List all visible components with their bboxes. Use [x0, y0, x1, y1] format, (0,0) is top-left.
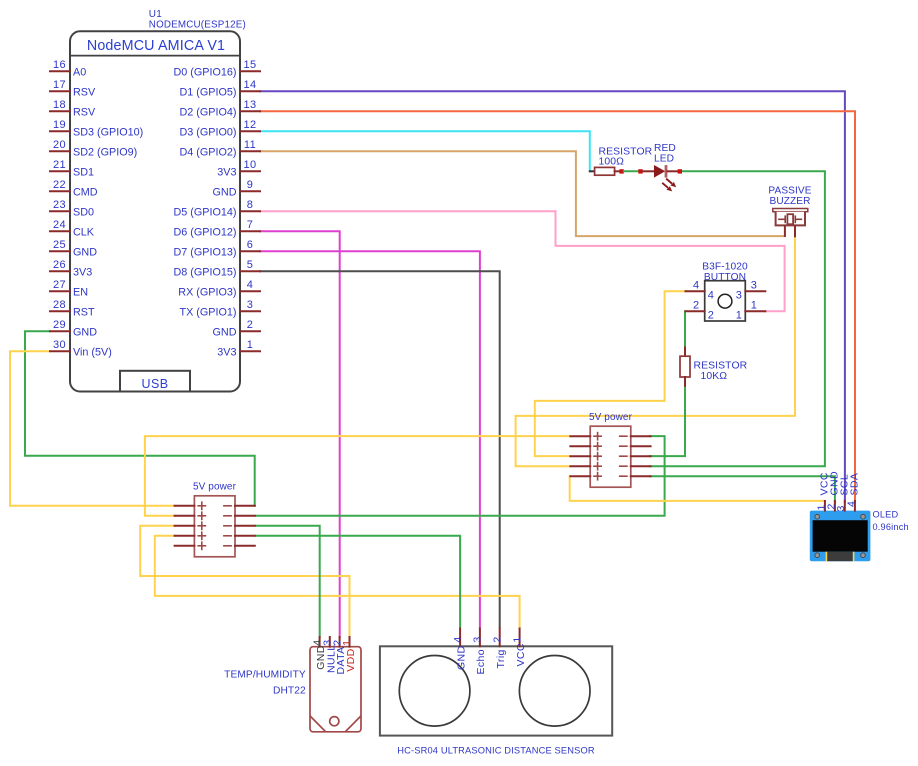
- svg-text:9: 9: [247, 179, 254, 191]
- svg-text:TX (GPIO1): TX (GPIO1): [180, 306, 237, 318]
- svg-text:SD2 (GPIO9): SD2 (GPIO9): [73, 146, 137, 158]
- 5V power A plus pin 1: [175, 502, 206, 509]
- U1 pin 25 GND: [50, 239, 97, 258]
- svg-text:RSV: RSV: [73, 86, 96, 98]
- svg-text:D2 (GPIO4): D2 (GPIO4): [180, 106, 237, 118]
- buzzer pin 2 leg: [794, 226, 796, 236]
- svg-text:1: 1: [511, 636, 523, 642]
- svg-text:D0 (GPIO16): D0 (GPIO16): [174, 66, 237, 78]
- wire button pin4 to 5V power B plus3 (yellow): [535, 291, 686, 456]
- svg-text:GND: GND: [455, 645, 467, 670]
- svg-text:GND: GND: [213, 326, 237, 338]
- svg-text:7: 7: [247, 219, 254, 231]
- svg-text:PASSIVE: PASSIVE: [768, 186, 811, 197]
- svg-text:VDD: VDD: [345, 648, 357, 671]
- svg-text:Echo: Echo: [475, 649, 487, 675]
- wire U1 Vin 5V pin30 to 5V power A plus1 (yellow): [10, 351, 175, 506]
- svg-text:EN: EN: [73, 286, 88, 298]
- 5V power B minus pin 1: [620, 435, 651, 437]
- LED D1 red: [654, 165, 677, 178]
- U1 pin 6 D7 (GPIO13): [174, 239, 261, 258]
- wire D5 GPIO14 to button pin 1 (pink): [260, 211, 785, 311]
- U1 pin 23 SD0: [50, 199, 94, 218]
- button pin 4: [686, 279, 715, 301]
- svg-text:BUZZER: BUZZER: [770, 196, 811, 207]
- U1 pin 12 D3 (GPIO0): [180, 119, 261, 138]
- svg-text:25: 25: [53, 239, 66, 251]
- svg-text:20: 20: [53, 139, 66, 151]
- U1 pin 7 D6 (GPIO12): [174, 219, 261, 238]
- resistor R1 100ohm: [590, 167, 620, 175]
- svg-text:17: 17: [53, 79, 66, 91]
- U1 pin 13 D2 (GPIO4): [180, 99, 261, 118]
- wire button pin2 to resistor R2 (green): [684, 311, 686, 347]
- sensor HC-SR04 body: [380, 646, 612, 735]
- junction: [619, 169, 623, 173]
- U1 pin 14 D1 (GPIO5): [180, 79, 261, 98]
- power supply 5V power A 5V power: [194, 496, 235, 557]
- svg-text:GND: GND: [73, 246, 97, 258]
- svg-text:3V3: 3V3: [217, 346, 236, 358]
- svg-text:1: 1: [341, 640, 353, 646]
- svg-text:D8 (GPIO15): D8 (GPIO15): [174, 266, 237, 278]
- U1 pin 10 3V3: [217, 159, 260, 178]
- label RESISTOR 10K: [694, 361, 748, 382]
- svg-text:RED: RED: [654, 143, 676, 154]
- 5V power B plus pin 4: [570, 463, 601, 470]
- 5V power B minus pin 2: [620, 445, 651, 447]
- U1 pin 27 EN: [50, 279, 88, 298]
- svg-text:1: 1: [751, 299, 758, 311]
- svg-text:0.96inch: 0.96inch: [873, 522, 909, 532]
- svg-text:RSV: RSV: [73, 106, 96, 118]
- U1 pin 20 SD2 (GPIO9): [50, 139, 137, 158]
- svg-text:NODEMCU(ESP12E): NODEMCU(ESP12E): [149, 20, 246, 31]
- svg-text:RX (GPIO3): RX (GPIO3): [178, 286, 236, 298]
- DHT22 pin 4 GND: [311, 637, 327, 670]
- svg-text:2: 2: [708, 309, 715, 321]
- U1 pin 8 D5 (GPIO14): [174, 199, 261, 218]
- svg-text:2: 2: [491, 636, 503, 642]
- svg-text:21: 21: [53, 159, 66, 171]
- OLED pin 4 SDA: [845, 473, 860, 511]
- U1 pin 21 SD1: [50, 159, 94, 178]
- buzzer pin 1 leg: [784, 226, 786, 236]
- wire 5V power A minus4 to HC-SR04 GND (green): [255, 536, 460, 627]
- wire D4 GPIO2 to buzzer pin 1 (tan): [260, 151, 785, 236]
- svg-text:LED: LED: [654, 154, 674, 165]
- svg-text:1: 1: [247, 339, 254, 351]
- label RED LED: [654, 143, 676, 165]
- svg-text:Vin (5V): Vin (5V): [73, 346, 112, 358]
- svg-text:4: 4: [845, 501, 857, 507]
- DHT22 pin 1 VDD: [341, 637, 357, 672]
- label OLED 0.96inch: [873, 510, 909, 532]
- U1 pin 16 A0: [50, 59, 86, 78]
- USB port: [120, 371, 190, 392]
- svg-text:CMD: CMD: [73, 186, 98, 198]
- DHT22 pin 3 NULL: [322, 637, 338, 673]
- HC-SR04 pin 4 GND: [452, 629, 468, 671]
- button pin 1: [736, 299, 766, 321]
- svg-text:D7 (GPIO13): D7 (GPIO13): [174, 246, 237, 258]
- 5V power B minus pin 5: [620, 475, 651, 477]
- svg-text:3V3: 3V3: [217, 166, 236, 178]
- HC-SR04 pin 1 VCC: [511, 629, 527, 667]
- svg-text:12: 12: [243, 119, 256, 131]
- svg-text:D3 (GPIO0): D3 (GPIO0): [180, 126, 237, 138]
- wire 5V power A minus2 to 5V power B minus1 (green): [255, 436, 665, 516]
- svg-text:HC-SR04 ULTRASONIC DISTANCE SE: HC-SR04 ULTRASONIC DISTANCE SENSOR: [397, 745, 595, 755]
- wire D8 GPIO15 to HC-SR04 Trig (gray): [260, 271, 500, 627]
- 5V power A plus pin 4: [175, 532, 206, 539]
- display OLED 0.96inch: [810, 511, 871, 562]
- U1 pin 5 D8 (GPIO15): [174, 259, 261, 278]
- svg-text:SD1: SD1: [73, 166, 94, 178]
- svg-text:100Ω: 100Ω: [599, 157, 625, 168]
- power supply 5V power B 5V power: [590, 426, 631, 487]
- wire buzzer pin2 to 5V power B plus4 (yellow): [516, 236, 795, 466]
- U1 pin 3 TX (GPIO1): [180, 299, 261, 318]
- 5V power A minus pin 2: [224, 515, 255, 517]
- svg-text:SD3 (GPIO10): SD3 (GPIO10): [73, 126, 143, 138]
- U1 pin 29 GND: [50, 319, 97, 338]
- svg-text:4: 4: [452, 636, 464, 642]
- 5V power A minus pin 1: [224, 505, 255, 507]
- 5V power B plus pin 1: [570, 433, 601, 440]
- wire D2 GPIO4 to OLED SDA (orange): [260, 111, 855, 502]
- switch S1 B3F-1020 body: [705, 281, 746, 321]
- wire resistor to LED (green): [624, 170, 639, 172]
- 5V power A minus pin 4: [224, 535, 255, 537]
- 5V power B plus pin 2: [570, 443, 601, 450]
- svg-text:A0: A0: [73, 66, 86, 78]
- wire 5V power B plus5 to OLED VCC (yellow): [570, 476, 825, 502]
- svg-text:14: 14: [243, 79, 256, 91]
- wire D7 GPIO13 to HC-SR04 Echo (magenta): [260, 251, 480, 627]
- svg-text:10KΩ: 10KΩ: [701, 371, 728, 382]
- button pin 2: [686, 299, 715, 321]
- OLED pin 1 VCC: [815, 472, 830, 510]
- wire 5V power A plus3 to DHT22 VDD (yellow): [140, 526, 349, 637]
- svg-text:SD0: SD0: [73, 206, 94, 218]
- svg-text:SDA: SDA: [849, 473, 861, 496]
- U1 pin 9 GND: [213, 179, 261, 198]
- svg-text:3: 3: [472, 636, 484, 642]
- svg-text:28: 28: [53, 299, 66, 311]
- svg-text:3V3: 3V3: [73, 266, 92, 278]
- U1 pin 30 Vin (5V): [50, 339, 112, 358]
- svg-text:15: 15: [243, 59, 256, 71]
- svg-text:1: 1: [736, 309, 743, 321]
- svg-text:16: 16: [53, 59, 66, 71]
- svg-text:2: 2: [693, 299, 700, 311]
- svg-text:B3F-1020: B3F-1020: [702, 261, 748, 272]
- svg-text:29: 29: [53, 319, 66, 331]
- svg-text:8: 8: [247, 199, 254, 211]
- svg-text:D4 (GPIO2): D4 (GPIO2): [180, 146, 237, 158]
- wire D1 GPIO5 to OLED SCL (purple): [260, 91, 845, 502]
- svg-text:13: 13: [243, 99, 256, 111]
- svg-text:USB: USB: [142, 377, 169, 391]
- 5V power B plus pin 5: [570, 473, 601, 480]
- U1 pin 17 RSV: [50, 79, 96, 98]
- U1 pin 22 CMD: [50, 179, 98, 198]
- svg-text:U1: U1: [149, 9, 162, 20]
- 5V power A plus pin 2: [175, 512, 206, 519]
- wire 5V power A minus3 to DHT22 GND (green): [255, 526, 320, 637]
- svg-text:VCC: VCC: [515, 643, 527, 666]
- DHT22 pin 2 DATA: [331, 637, 347, 675]
- U1 pin 11 D4 (GPIO2): [180, 139, 261, 158]
- wire 5V power B plus1 to 5V power A plus2 (yellow): [145, 436, 570, 516]
- label B3F-1020 BUTTON: [702, 261, 748, 283]
- label RESISTOR 100ohm: [599, 147, 653, 168]
- 5V power B minus pin 4: [620, 465, 651, 467]
- svg-text:11: 11: [244, 139, 256, 151]
- svg-text:5V power: 5V power: [193, 482, 237, 493]
- svg-text:4: 4: [247, 279, 254, 291]
- HC-SR04 pin 2 Trig: [491, 629, 507, 669]
- svg-text:4: 4: [693, 279, 700, 291]
- svg-text:RST: RST: [73, 306, 95, 318]
- svg-text:26: 26: [53, 259, 66, 271]
- svg-text:18: 18: [53, 99, 66, 111]
- U1 pin 26 3V3: [50, 259, 92, 278]
- resistor R2 10K: [680, 348, 690, 386]
- svg-text:30: 30: [53, 339, 66, 351]
- svg-text:27: 27: [53, 279, 66, 291]
- svg-text:4: 4: [708, 289, 715, 301]
- wire junction to LED anode (dark red): [643, 170, 654, 172]
- svg-text:Trig: Trig: [495, 649, 507, 668]
- wire D3 GPIO0 to resistor (cyan): [260, 131, 590, 171]
- U1 pin 2 GND: [213, 319, 261, 338]
- svg-text:5: 5: [247, 259, 254, 271]
- svg-text:5V power: 5V power: [589, 412, 633, 423]
- wire D6 GPIO12 to DHT22 DATA (magenta): [260, 231, 340, 637]
- OLED pin 2 GND: [825, 471, 840, 511]
- wire resistor R2 to 5V power B minus3 (green): [650, 386, 685, 456]
- svg-text:DHT22: DHT22: [273, 685, 306, 696]
- label TEMP/HUMIDITY DHT22: [224, 669, 306, 696]
- wire LED cathode to 5V power B minus4 (green): [650, 171, 825, 466]
- 5V power B minus pin 3: [620, 455, 651, 457]
- svg-text:D5 (GPIO14): D5 (GPIO14): [174, 206, 237, 218]
- button pin 3: [736, 279, 766, 301]
- svg-text:3: 3: [736, 289, 743, 301]
- svg-text:NodeMCU AMICA V1: NodeMCU AMICA V1: [87, 38, 225, 54]
- svg-text:24: 24: [53, 219, 66, 231]
- svg-text:TEMP/HUMIDITY: TEMP/HUMIDITY: [224, 669, 306, 680]
- op-amp U1 NodeMCU AMICA V1 body: [70, 31, 240, 391]
- svg-text:D1 (GPIO5): D1 (GPIO5): [180, 86, 237, 98]
- sensor DHT22 body: [310, 647, 361, 732]
- svg-text:D6 (GPIO12): D6 (GPIO12): [174, 226, 237, 238]
- svg-text:3: 3: [751, 279, 758, 291]
- OLED pin 3 SCL: [835, 474, 850, 512]
- label PASSIVE BUZZER: [768, 186, 811, 208]
- svg-text:2: 2: [247, 319, 254, 331]
- wire 5V power A plus4 to HC-SR04 VCC (yellow): [155, 536, 520, 627]
- svg-text:3: 3: [247, 299, 254, 311]
- svg-text:6: 6: [247, 239, 254, 251]
- svg-text:OLED: OLED: [873, 510, 899, 520]
- buzzer BZ1 passive: [773, 209, 808, 226]
- svg-text:23: 23: [53, 199, 66, 211]
- 5V power B plus pin 3: [570, 453, 601, 460]
- svg-text:GND: GND: [213, 186, 237, 198]
- 5V power A minus pin 3: [224, 525, 255, 527]
- svg-text:22: 22: [53, 179, 66, 191]
- U1 pin 19 SD3 (GPIO10): [50, 119, 143, 138]
- U1 pin 4 RX (GPIO3): [178, 279, 260, 298]
- LED emission arrows: [662, 179, 676, 192]
- U1 pin 28 RST: [50, 299, 95, 318]
- wire U1 GND pin29 to 5V power A minus1 (green): [25, 331, 255, 506]
- svg-text:10: 10: [243, 159, 256, 171]
- svg-text:CLK: CLK: [73, 226, 95, 238]
- 5V power A plus pin 3: [175, 522, 206, 529]
- U1 pin 1 3V3: [217, 339, 260, 358]
- junction: [638, 169, 642, 173]
- HC-SR04 pin 3 Echo: [472, 629, 488, 675]
- U1 pin 24 CLK: [50, 219, 95, 238]
- svg-text:GND: GND: [73, 326, 97, 338]
- 5V power A plus pin 5: [175, 542, 206, 549]
- 5V power A minus pin 5: [224, 545, 255, 547]
- svg-text:19: 19: [53, 119, 66, 131]
- wire 5V power B minus5 to OLED GND (green): [650, 476, 835, 502]
- U1 pin 15 D0 (GPIO16): [174, 59, 261, 78]
- U1 pin 18 RSV: [50, 99, 96, 118]
- junction: [678, 169, 682, 173]
